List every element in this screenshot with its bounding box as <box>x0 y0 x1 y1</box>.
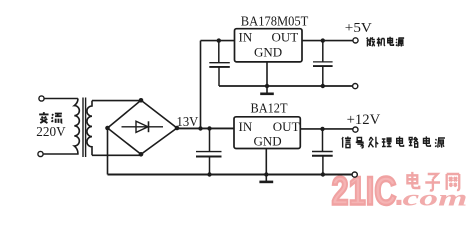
wire U2 output <box>300 128 353 130</box>
wire riser to U1 input <box>201 41 235 129</box>
svg-text:BA178M05T: BA178M05T <box>241 14 309 29</box>
transformer T1 primary terminal bottom <box>38 151 43 156</box>
svg-text:GND: GND <box>254 133 282 148</box>
terminal +12V <box>353 127 358 132</box>
label xinhao chuli dianlu dianyuan <box>342 136 445 147</box>
wire U1 output <box>302 40 353 42</box>
wire 13V rail <box>177 127 234 129</box>
node bridge left <box>105 126 110 131</box>
svg-text:220V: 220V <box>36 125 65 140</box>
transformer T1 secondary winding <box>87 101 92 156</box>
svg-text:com: com <box>403 186 468 212</box>
watermark text dianziwang <box>407 172 459 191</box>
bridge diode symbol <box>122 121 164 132</box>
svg-text:BA12T: BA12T <box>251 100 289 115</box>
junction U1 gnd <box>265 84 269 88</box>
node bridge right <box>175 126 180 131</box>
wire secondary bottom to bridge <box>92 154 141 155</box>
label AC jiaoliu <box>39 112 62 123</box>
U1 GND pin wire <box>266 62 268 86</box>
node bridge bottom <box>139 152 144 157</box>
capacitor C2 <box>209 41 230 86</box>
junction C3 bottom <box>321 84 325 88</box>
svg-text:+12V: +12V <box>347 112 381 128</box>
terminal bottom ground <box>352 172 357 177</box>
wire bridge left to ground rail <box>107 128 109 175</box>
regulator U1 BA178M05T box <box>235 29 303 62</box>
junction C4 bottom <box>321 172 325 176</box>
capacitor C3 <box>313 41 333 86</box>
wire ground rail bottom <box>108 174 353 176</box>
transformer T1 core <box>83 98 86 158</box>
ground symbol top <box>260 86 274 94</box>
svg-text:21IC: 21IC <box>332 170 397 214</box>
wire secondary top to bridge <box>92 100 141 102</box>
U2 GND pin wire <box>265 149 267 175</box>
svg-text:GND: GND <box>254 45 282 60</box>
wire primary top <box>44 98 78 100</box>
svg-text:OUT: OUT <box>272 30 299 45</box>
label weiji dianyuan <box>367 37 404 47</box>
transformer T1 primary terminal top <box>39 96 44 101</box>
transformer T1 primary winding <box>43 99 79 155</box>
watermark logo 21IC <box>332 170 402 214</box>
junction C3 top <box>321 38 325 42</box>
capacitor C1 <box>196 129 222 175</box>
junction C1 top <box>207 126 211 130</box>
junction riser to U1 <box>198 126 202 130</box>
junction C2 top <box>217 38 221 42</box>
terminal top ground <box>353 84 358 89</box>
junction C4 top <box>320 127 324 131</box>
ground symbol bottom <box>259 175 273 182</box>
svg-text:OUT: OUT <box>273 119 300 134</box>
svg-text:IN: IN <box>239 119 253 134</box>
capacitor C4 <box>312 129 333 175</box>
bridge rectifier diamond <box>108 100 178 154</box>
junction C1 bottom <box>207 172 211 176</box>
node bridge top <box>139 98 144 103</box>
junction U2 gnd <box>264 172 268 176</box>
svg-text:+5V: +5V <box>345 21 372 36</box>
wire top ground line <box>219 85 352 87</box>
svg-text:IN: IN <box>239 29 253 44</box>
terminal +5V <box>353 38 358 43</box>
regulator U2 BA12T box <box>234 117 300 149</box>
